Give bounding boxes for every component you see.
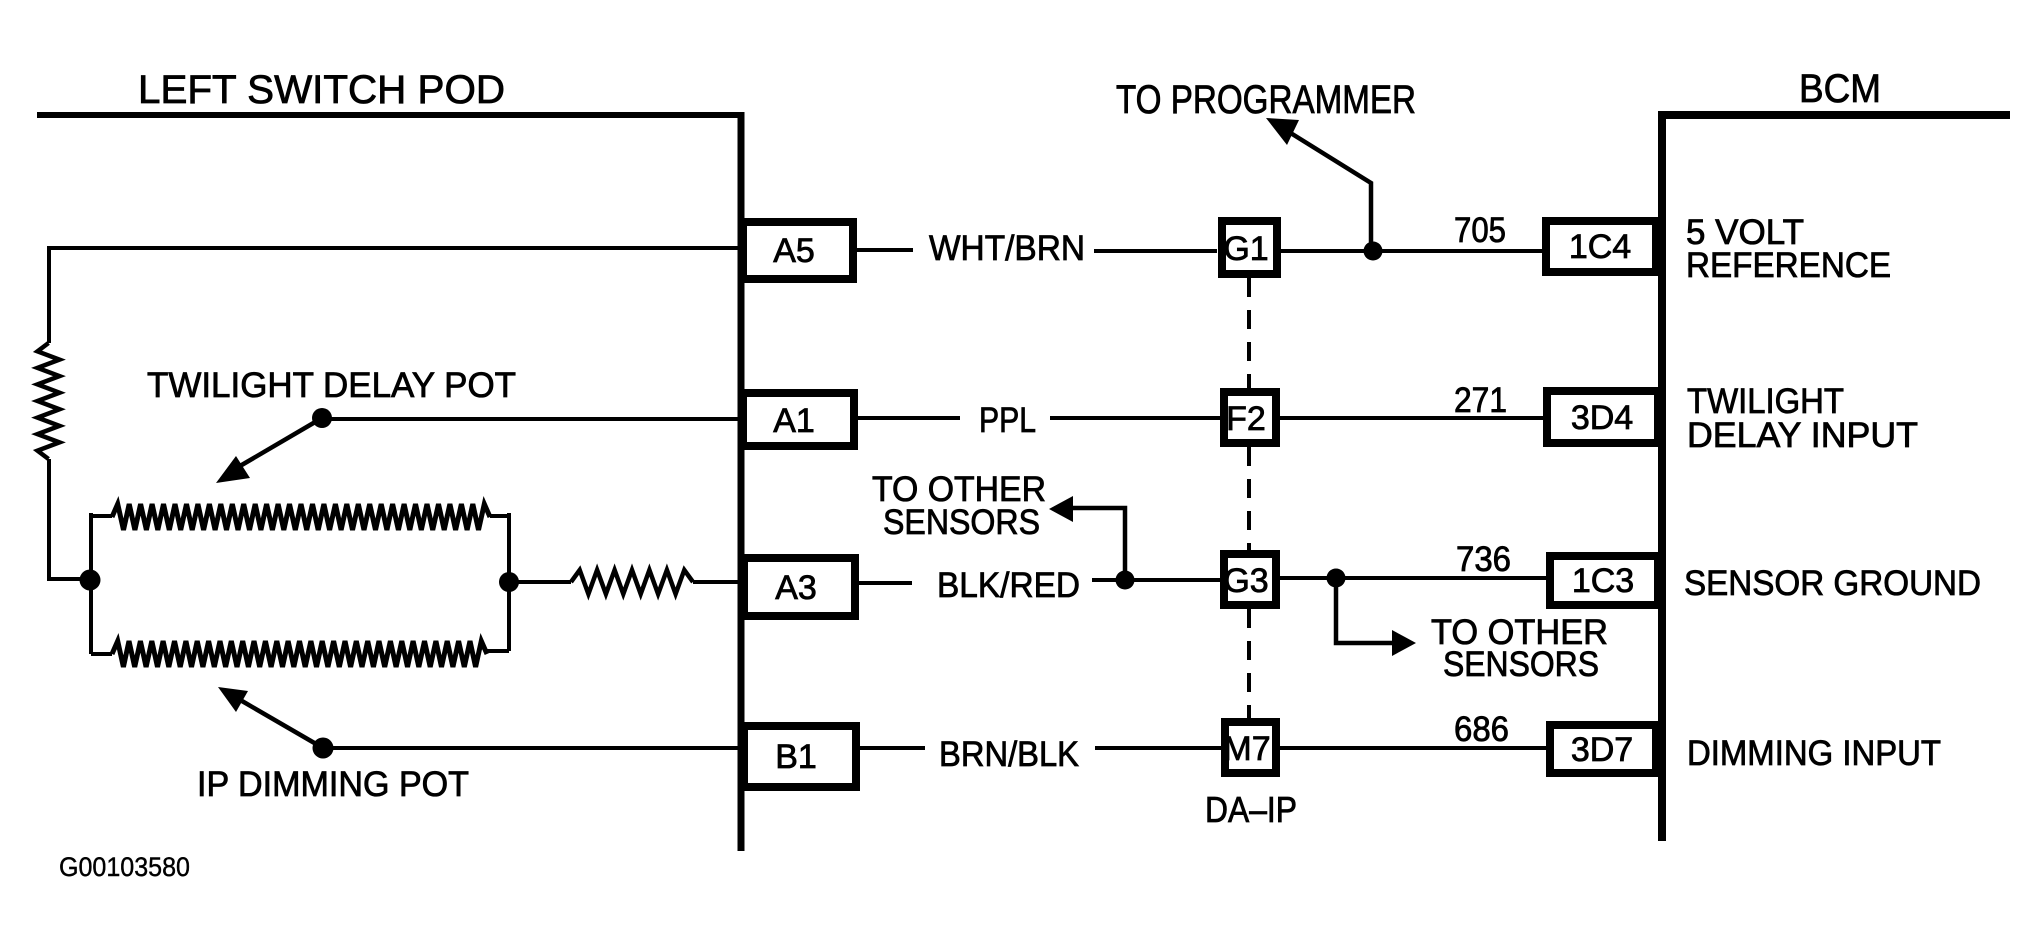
svg-text:BRN/BLK: BRN/BLK [939,735,1079,774]
ip dimming pot arrowhead [218,687,248,712]
wire WHT/BRN to G1 [1094,249,1217,253]
wire to programmer [1289,132,1371,251]
svg-text:1C4: 1C4 [1569,228,1631,266]
wire A5 to left loop [49,246,739,250]
svg-text:REFERENCE: REFERENCE [1686,246,1891,285]
wire B1 right [860,746,925,750]
svg-text:A1: A1 [773,402,815,440]
wire wiper to A1 [322,417,739,421]
svg-text:DELAY INPUT: DELAY INPUT [1687,416,1918,455]
node to other sensors left [1116,571,1135,590]
svg-text:TWILIGHT DELAY POT: TWILIGHT DELAY POT [147,366,516,405]
potentiometer top resistor [112,504,490,530]
wire pot to series resistor [509,580,571,584]
svg-text:736: 736 [1456,540,1511,579]
svg-text:IP DIMMING POT: IP DIMMING POT [197,765,469,804]
svg-text:271: 271 [1454,381,1507,420]
node to other sensors right [1327,569,1346,588]
connector pin F2 box [1224,392,1276,443]
wire A1 right [858,416,960,420]
twilight delay pot arrowhead [216,456,250,483]
svg-text:LEFT SWITCH POD: LEFT SWITCH POD [138,68,505,112]
potentiometer left bracket [91,513,112,654]
connector pin G1 box [1222,221,1277,274]
svg-text:G00103580: G00103580 [59,852,190,882]
node pot right terminal [499,572,519,592]
wire PPL to F2 [1050,416,1220,420]
connector pin 3D7 box [1550,725,1656,773]
wire G1 to 1C4 [1281,249,1542,253]
wire dashed G1 to F2 [1247,278,1251,388]
wire F2 to 3D4 [1280,416,1543,420]
wire to other sensors left [1073,508,1125,580]
svg-text:686: 686 [1454,710,1509,749]
node twilight delay pot wiper [312,408,332,428]
svg-text:DIMMING INPUT: DIMMING INPUT [1687,734,1941,773]
svg-text:F2: F2 [1226,400,1266,438]
svg-text:G1: G1 [1223,230,1268,268]
wire A5 right [857,248,913,252]
wire left loop vertical upper [47,246,51,343]
wire wiper to B1 [323,746,740,750]
twilight delay pot wiper arrow line [240,418,322,466]
svg-text:B1: B1 [775,738,817,776]
svg-text:SENSORS: SENSORS [883,503,1040,542]
connector pin A1 box [743,393,854,446]
svg-text:1C3: 1C3 [1572,562,1634,600]
arrowhead to other sensors left [1049,496,1073,522]
wire A3 right [859,581,912,585]
svg-text:WHT/BRN: WHT/BRN [929,229,1085,268]
potentiometer bottom resistor [112,641,487,667]
svg-text:3D7: 3D7 [1571,731,1633,769]
svg-text:3D4: 3D4 [1571,399,1633,437]
ip dimming pot wiper arrow line [242,701,323,748]
wire dashed G3 to M7 [1247,609,1251,718]
wire M7 to 3D7 [1280,746,1546,750]
connector pin A3 box [744,558,855,616]
svg-text:SENSORS: SENSORS [1443,645,1599,684]
wire dashed F2 to G3 [1247,447,1251,550]
node junction to programmer [1364,242,1383,261]
BCM connector vertical line [1658,111,1666,841]
node ip dimming pot wiper [313,738,334,759]
connector pin G3 box [1224,554,1276,605]
svg-text:M7: M7 [1223,730,1270,768]
wire G3 to 1C3 [1280,576,1546,580]
wire to other sensors right [1336,578,1392,643]
potentiometer right bracket [487,513,509,651]
svg-text:BLK/RED: BLK/RED [937,566,1080,605]
connector pin B1 box [744,726,856,787]
svg-text:A5: A5 [773,232,815,270]
wire resistor to A3 [693,580,740,584]
svg-text:TO PROGRAMMER: TO PROGRAMMER [1116,78,1416,122]
connector pin 1C3 box [1550,556,1658,605]
connector pin M7 box [1225,722,1276,773]
svg-text:PPL: PPL [979,401,1036,440]
svg-text:SENSOR GROUND: SENSOR GROUND [1684,564,1981,603]
resistor series to A3 [571,570,693,594]
svg-text:DA–IP: DA–IP [1205,789,1297,830]
connector pin A5 box [743,222,853,279]
wire left loop vertical lower [47,459,90,579]
arrowhead to other sensors right [1392,630,1416,656]
arrowhead to programmer [1266,118,1299,145]
wire BLK/RED to G3 [1092,578,1220,582]
left switch pod connector line [37,112,741,118]
wire BRN/BLK to M7 [1095,746,1221,750]
svg-text:BCM: BCM [1799,67,1881,111]
BCM connector top line [1661,111,2010,119]
resistor vertical left [38,343,60,459]
svg-text:G3: G3 [1223,562,1268,600]
svg-text:A3: A3 [775,569,817,607]
node pot left terminal [80,570,101,591]
left connector vertical line [738,112,745,851]
svg-text:705: 705 [1454,211,1506,250]
connector pin 1C4 box [1546,221,1656,272]
connector pin 3D4 box [1547,391,1658,443]
